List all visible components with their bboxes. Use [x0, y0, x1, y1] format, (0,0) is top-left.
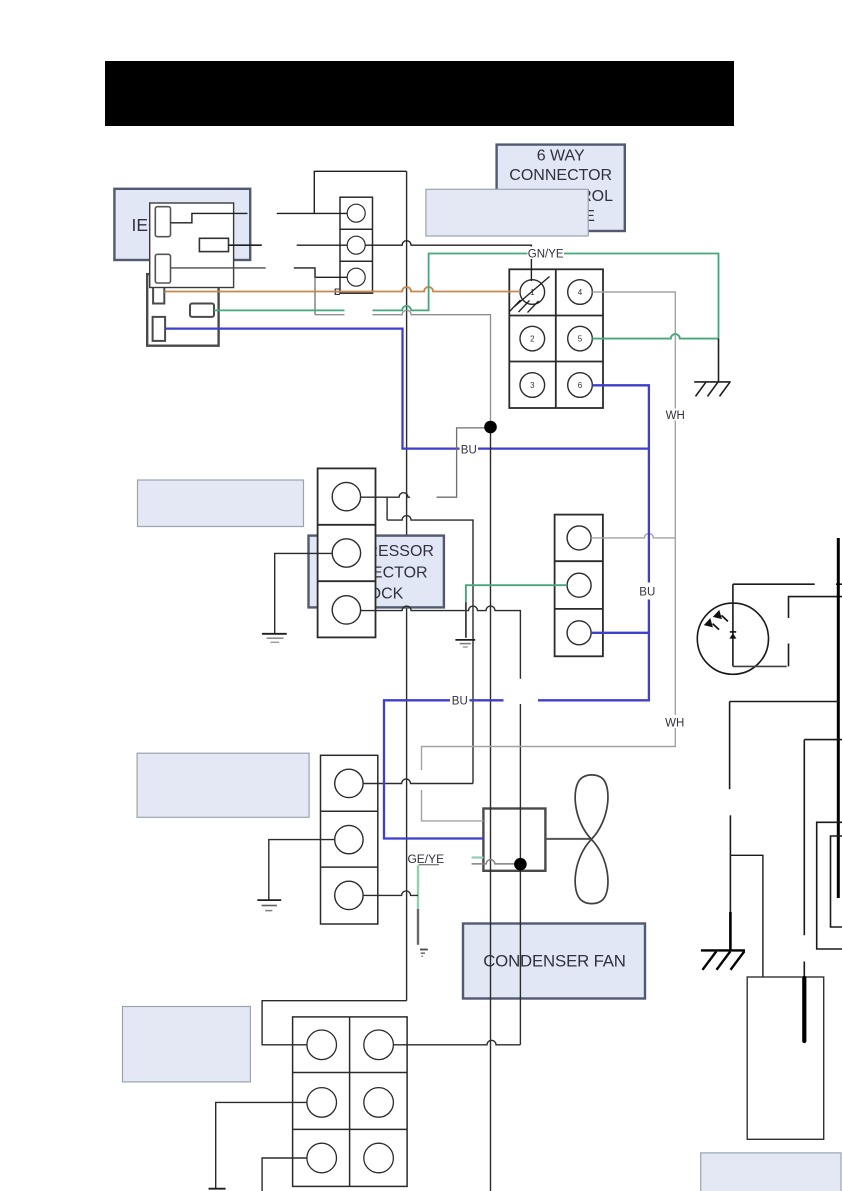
lamp LED circle: [697, 603, 768, 674]
pin 1: [520, 280, 545, 305]
wire: green stub into fan motor: [472, 856, 484, 858]
svg-text:GN/YE: GN/YE: [528, 248, 564, 260]
wire: bottom block circle1 to condenser fan drop: [393, 1040, 520, 1045]
wire: blue from plug to BU rail: [165, 329, 649, 449]
wire: grey from relay block circle1 to WH rail: [591, 533, 675, 538]
redacted title block: [105, 61, 734, 126]
svg-text:5: 5: [578, 335, 583, 344]
wire: lamp top lead: [733, 583, 815, 585]
small ground below GE/YE: [420, 950, 428, 957]
6 way connector: [509, 269, 603, 408]
svg-text:BU: BU: [639, 586, 655, 598]
condenser fan motor box: [483, 809, 545, 871]
wire: lamp bottom lead: [733, 665, 787, 667]
wire: compressor circle3 across to condenser fan motor: [361, 606, 521, 679]
compressor housing thick line at page edge: [837, 538, 840, 898]
wire: probe lead with contact gap: [803, 740, 805, 936]
wire: green GN/YE rail to 6-way pin5 drop: [373, 254, 719, 339]
svg-text:2: 2: [530, 335, 535, 344]
junction dot B in fan motor: [514, 858, 527, 871]
svg-text:GE/YE: GE/YE: [407, 852, 444, 866]
nested housing bracket outer: [817, 822, 842, 949]
wire: grey into fan motor to junction dot: [472, 860, 521, 864]
pin 4: [568, 280, 593, 305]
wire: green 6-way pin5: [592, 334, 718, 339]
svg-text:CONNECTOR: CONNECTOR: [509, 167, 612, 184]
wire: horizontal into compressor housing: [730, 701, 839, 703]
plug pin centre: [190, 304, 214, 317]
wire: grey stem below GE/YE green: [417, 909, 419, 945]
wire: stub at page edge: [836, 583, 842, 585]
wire: WH white rail from 6-way pin4 down to fan motor: [422, 292, 676, 770]
svg-text:WH: WH: [665, 717, 684, 729]
fan shaft: [545, 838, 591, 840]
wire: green compressor to relay block circle2: [466, 585, 567, 602]
wire: grey stub under GE/YE label: [419, 864, 439, 866]
wire: branch from compressor circle1 down to fan block circle1: [386, 497, 388, 520]
IEC inlet body: [150, 203, 234, 288]
wire label GE/YE: [407, 850, 444, 866]
pin 5: [568, 326, 593, 351]
fan blades: [575, 775, 608, 904]
ground symbol below green corner: [455, 640, 475, 647]
main connector block (6 way, bottom): [293, 1017, 408, 1187]
wire: vertical with contact gap down to thermal earth: [729, 702, 731, 790]
wire label BU (upper): [460, 443, 479, 456]
svg-text:3: 3: [530, 381, 535, 390]
mains terminal block (3 way): [340, 197, 373, 293]
LED diode symbol: [729, 632, 736, 639]
wire label GN/YE: [528, 247, 565, 261]
wire: bottom block circle3 drop off page: [262, 1158, 307, 1191]
wire: blue 6-way pin6 down the BU rail: [592, 385, 649, 582]
wire: switch to mains block circle3: [294, 268, 347, 277]
wire: junction dot vertical down to condenser fan and page bottom: [490, 427, 492, 1191]
wire: switch to mains block circle2: [297, 244, 348, 246]
IEC inlet contact top: [155, 207, 170, 237]
wire: fan block circle3 to GE/YE green: [363, 891, 418, 896]
wire label BU (middle): [638, 585, 657, 599]
wire label BU (lower): [450, 694, 470, 708]
svg-text:4: 4: [578, 288, 583, 297]
empty label box overlapping 6-way label: [426, 189, 588, 236]
label box CONDENSER FAN: [463, 924, 645, 999]
slanted earth symbol bottom right: [701, 950, 745, 969]
pin 6: [568, 373, 593, 398]
wire: long vertical bus down the page: [406, 171, 408, 1000]
svg-text:6: 6: [578, 381, 583, 390]
wire: IEC earth contact to switch (middle): [229, 244, 262, 246]
empty label box left of relay terminal block: [137, 753, 309, 817]
switch contact beside lamp: [789, 597, 842, 618]
svg-text:WH: WH: [666, 410, 685, 422]
probe thick element: [802, 978, 806, 1041]
wire: bottom connector feed from long bus: [262, 1001, 407, 1045]
ground symbol below fan block circle2: [257, 900, 281, 911]
wire: bottom block circle2 to earth: [216, 1102, 307, 1188]
wire: GE/YE green drop: [417, 865, 419, 909]
svg-text:BU: BU: [452, 696, 468, 708]
svg-text:6 WAY: 6 WAY: [537, 148, 585, 165]
svg-text:BU: BU: [461, 444, 477, 456]
plug pin top-left: [153, 287, 164, 304]
ground at page bottom: [209, 1188, 226, 1190]
wire: grey link to junction dot (right part with hop): [373, 310, 491, 421]
wire: node down from circle3 feed: [314, 277, 316, 314]
relay terminal block (3 way, middle): [555, 515, 603, 657]
label box COMPRESSOR CONNECTOR BLOCK: [309, 536, 444, 608]
wire: IEC neutral contact to switch (lower): [171, 267, 266, 269]
svg-text:CONDENSER FAN: CONDENSER FAN: [483, 951, 626, 970]
pin 2: [520, 326, 545, 351]
sensor bulb box: [747, 977, 824, 1139]
ground symbol below compressor circle2: [262, 634, 287, 643]
wire: earth stem from green rail: [718, 339, 720, 382]
wire: orange from plug to 6-way pin1: [164, 287, 520, 292]
pin1 earth marking: [515, 277, 550, 307]
wire: stem to earth below green: [465, 602, 467, 638]
plug pin bottom-left: [153, 317, 166, 341]
slanted earth symbol right of 6-way: [694, 382, 731, 397]
wire: blue branch into relay block circle3: [591, 632, 649, 634]
empty label box bottom right: [701, 1153, 841, 1191]
wire: compressor circle2 to earth: [275, 553, 333, 633]
wire: compressor circle1 toward junction dot (with contact gap): [361, 493, 410, 498]
label box IEC CONNECTOR: [114, 189, 278, 260]
label box 6 WAY CONNECTOR CONTROL MODULE: [497, 145, 625, 231]
fan terminal block (3 way, lower): [321, 755, 378, 924]
wire: IEC live contact to switch (upper): [171, 213, 248, 222]
IEC inlet contact bottom: [155, 254, 170, 283]
IEC mains plug outline: [147, 274, 218, 346]
svg-text:E: E: [334, 287, 340, 298]
wire label WH (upper): [663, 409, 687, 423]
wire label WH (lower): [663, 715, 687, 729]
junction dot A: [484, 421, 497, 434]
wire: grey link to junction dot (left part): [315, 314, 345, 316]
LED emission arrows: [705, 612, 728, 630]
empty label box bottom left: [123, 1007, 251, 1082]
IEC inlet earth contact: [199, 238, 228, 251]
wire: green from plug (left of block): [214, 309, 345, 311]
thick earth stem: [729, 912, 732, 951]
wire: fan block circle2 to earth: [269, 840, 335, 901]
compressor connector block (3 way): [318, 468, 376, 637]
empty label box left of compressor connector block: [138, 480, 304, 527]
wire: bypass up and over to long drop: [314, 171, 406, 213]
pin 3: [520, 373, 545, 398]
wire: mains block circle2 to 6-way pin1 earth drop: [365, 241, 531, 281]
wire: switch to mains block circle1: [277, 212, 347, 214]
wire: right edge horizontal upper: [804, 739, 842, 741]
nested housing bracket inner: [831, 836, 842, 927]
